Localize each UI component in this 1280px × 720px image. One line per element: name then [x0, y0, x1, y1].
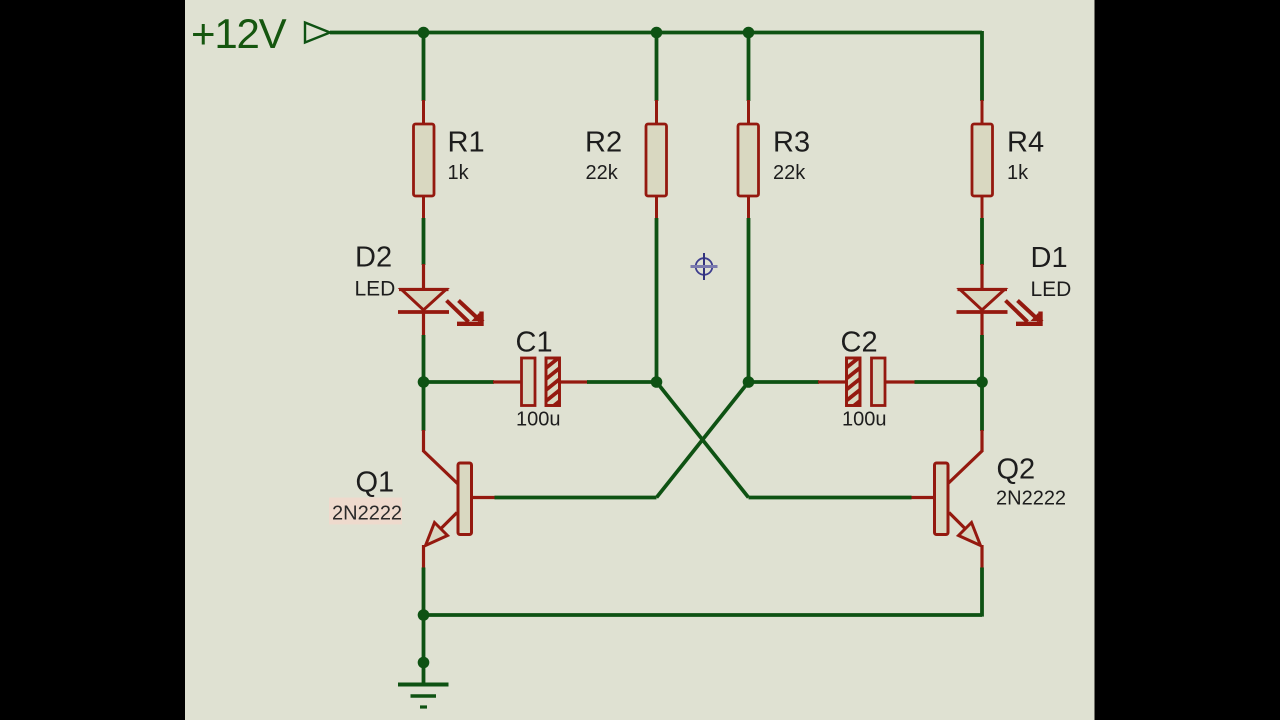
svg-text:Q1: Q1: [356, 467, 395, 499]
wire to ground terminal: [422, 615, 426, 684]
svg-text:R1: R1: [448, 127, 485, 159]
wire node A to C1: [424, 380, 495, 384]
junction R3 bottom / C2: [743, 376, 755, 388]
Q1 base pin: [472, 496, 496, 499]
node B junction (Q2 collector net): [976, 376, 988, 388]
svg-text:2N2222: 2N2222: [332, 503, 402, 525]
wire R3 column top: [747, 33, 751, 102]
svg-text:+12V: +12V: [191, 10, 287, 57]
svg-text:LED: LED: [355, 278, 396, 301]
highlight box for Q1 value: [329, 498, 402, 525]
svg-text:2N2222: 2N2222: [996, 488, 1066, 510]
junction top rail / R2 column: [651, 27, 663, 39]
wire node R3-bottom to C2: [749, 380, 820, 384]
svg-text:D2: D2: [355, 242, 392, 274]
wire top rail drop to R4: [980, 31, 984, 101]
right letterbox bar: [1095, 0, 1280, 720]
junction emitter rail / ground: [418, 609, 430, 621]
svg-text:100u: 100u: [842, 409, 887, 431]
svg-text:22k: 22k: [586, 162, 619, 184]
transistor Q2: [911, 430, 983, 569]
wire Q2 base to cross-couple: [749, 496, 912, 500]
svg-text:LED: LED: [1031, 278, 1072, 301]
ground: [398, 685, 449, 708]
svg-text:D1: D1: [1031, 242, 1068, 274]
wire bottom emitter rail: [424, 613, 983, 617]
node A junction (Q1 collector net): [418, 376, 430, 388]
wire R2 column top: [655, 33, 659, 102]
wire R2 bottom: [655, 218, 659, 382]
svg-text:100u: 100u: [516, 409, 561, 431]
resistor R2: [646, 100, 667, 219]
light-emission arrows of D1: [1006, 301, 1028, 322]
wire top rail: [330, 31, 982, 35]
svg-text:1k: 1k: [1007, 162, 1029, 184]
wire cross-couple R2 bottom to Q2 base (diagonal): [657, 382, 749, 498]
schematic sheet background: [185, 0, 1095, 720]
wire D2 to node A: [422, 335, 426, 382]
wire R4 to D1: [980, 218, 984, 265]
light-emission arrows of D2: [447, 301, 469, 322]
svg-text:R4: R4: [1007, 127, 1044, 159]
wire node A to Q1 collector: [422, 382, 426, 431]
svg-text:C1: C1: [516, 327, 553, 359]
wire cross-couple R3 bottom to Q1 base (diagonal): [657, 382, 749, 498]
Q2 emitter pin with arrow: [949, 513, 968, 532]
power terminal +12V: [305, 23, 330, 43]
resistor R3: [738, 100, 759, 219]
svg-text:Q2: Q2: [997, 454, 1036, 486]
LED D2: [398, 264, 485, 336]
svg-text:1k: 1k: [448, 162, 470, 184]
wire R1 to D2: [422, 218, 426, 265]
svg-text:C2: C2: [841, 327, 878, 359]
wire Q2 emitter down: [980, 568, 984, 617]
junction top rail / R3 column: [743, 27, 755, 39]
svg-text:R3: R3: [773, 127, 810, 159]
wire R1 column top: [422, 33, 426, 102]
LED D1: [957, 264, 1044, 336]
Q1 emitter pin with arrow: [438, 513, 457, 532]
wire C2 to node B: [915, 380, 983, 384]
resistor R4: [972, 100, 993, 219]
Q1 collector pin: [422, 430, 425, 452]
Q2 base pin: [911, 496, 935, 499]
wire Q1 emitter down: [422, 568, 426, 616]
wire Q1 base to cross-couple: [495, 496, 657, 500]
wire D1 to node B: [980, 335, 984, 382]
junction R2 bottom / C1: [651, 376, 663, 388]
wire C1 to node R2-bottom: [587, 380, 657, 384]
wire node B to Q2 collector: [980, 382, 984, 431]
Q1 base bar: [458, 463, 472, 535]
transistor Q1: [424, 430, 496, 569]
capacitor C2: [818, 352, 916, 416]
svg-text:22k: 22k: [773, 162, 806, 184]
left letterbox bar: [0, 0, 185, 720]
capacitor C1: [493, 352, 588, 416]
Q2 base bar: [935, 463, 949, 535]
svg-text:R2: R2: [585, 127, 622, 159]
wire R3 bottom: [747, 218, 751, 382]
junction ground pin: [418, 657, 430, 669]
junction top rail / R1 column: [418, 27, 430, 39]
origin marker: [691, 253, 718, 280]
resistor R1: [414, 100, 435, 219]
Q2 collector pin: [980, 430, 983, 452]
